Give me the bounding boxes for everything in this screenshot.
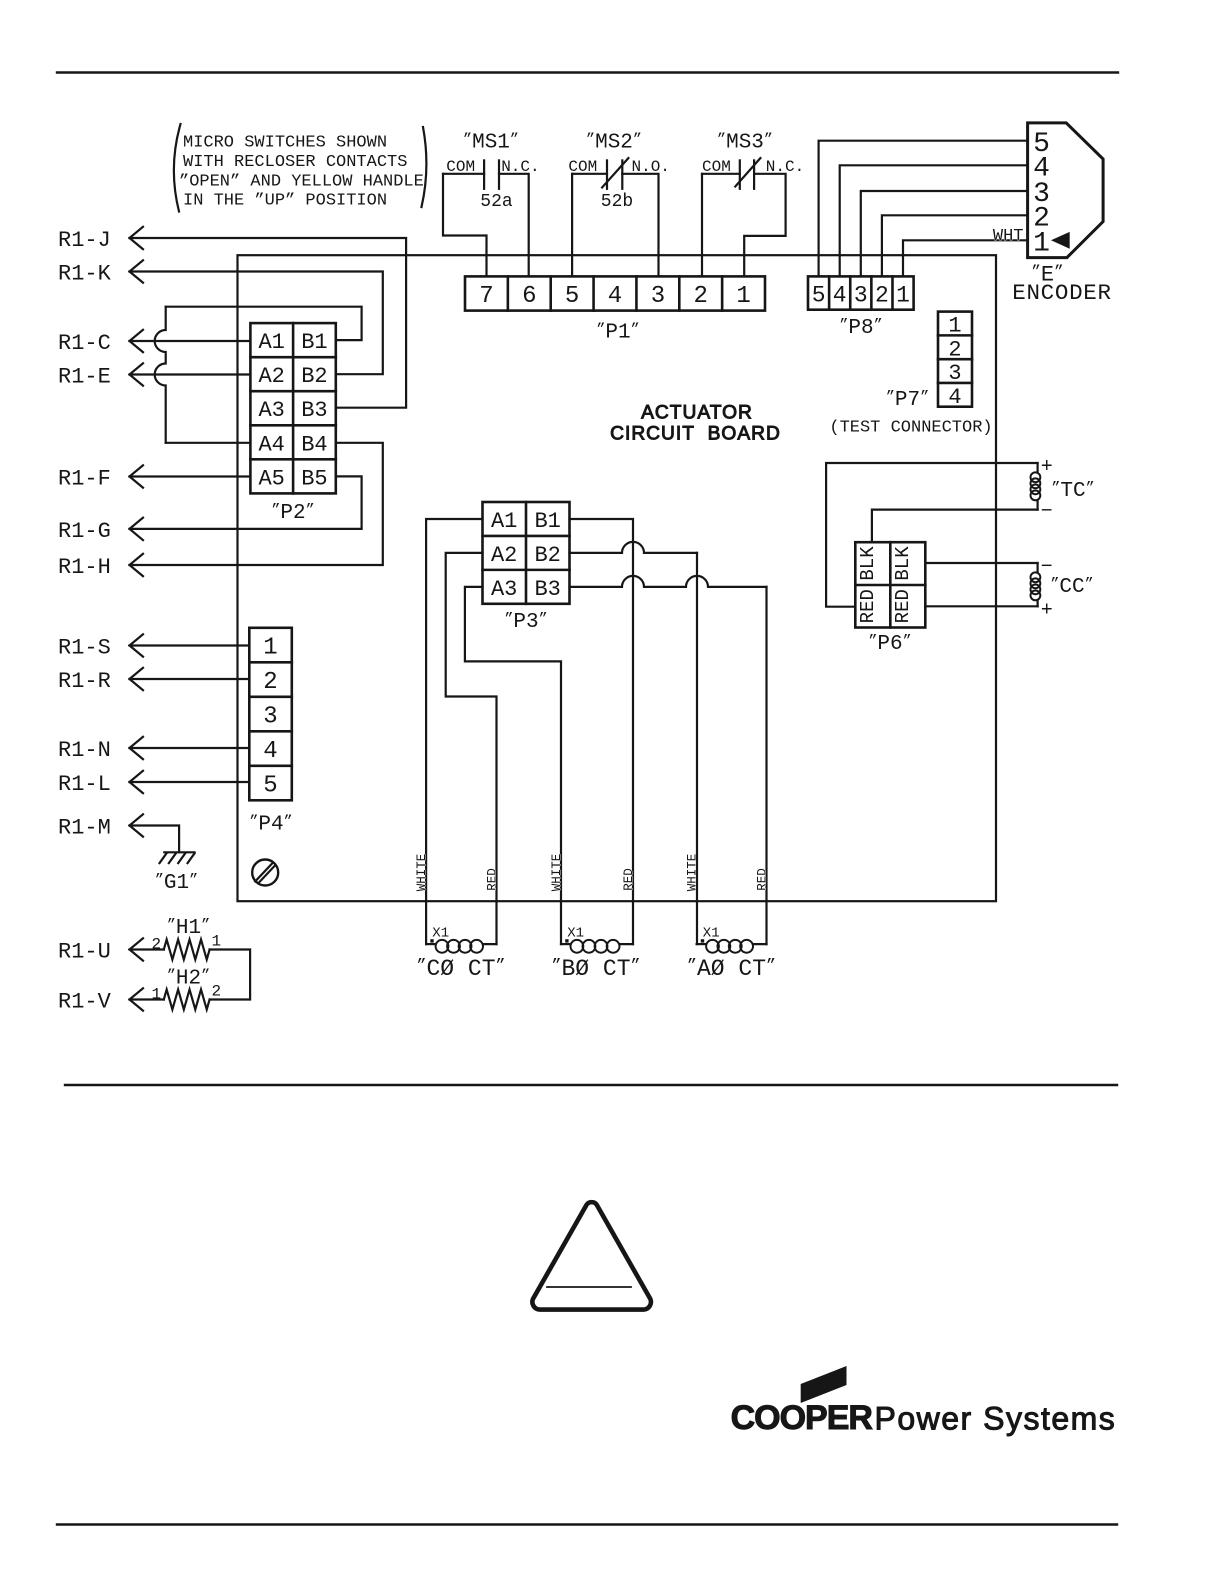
wire P3 pin A1 to C-phase CT white lead xyxy=(426,519,482,944)
svg-text:WHT: WHT xyxy=(993,227,1024,246)
node R1-U arrowhead xyxy=(130,938,144,960)
svg-text:A3: A3 xyxy=(258,398,284,423)
wire R1-L to P4 pin 5 xyxy=(130,781,250,783)
svg-text:ACTUATOR: ACTUATOR xyxy=(641,403,753,424)
svg-text:A2: A2 xyxy=(491,543,517,568)
wire MS1 N.C. to P1 pin 6 xyxy=(499,174,529,277)
svg-text:2: 2 xyxy=(693,283,707,310)
top horizontal rule xyxy=(57,71,1118,73)
wire R1-C to P2 pin A1 xyxy=(130,340,251,342)
connector P2 xyxy=(250,323,335,493)
svg-text:R1-J: R1-J xyxy=(58,228,111,253)
svg-text:Power Systems: Power Systems xyxy=(875,1400,1117,1436)
svg-text:WHITE: WHITE xyxy=(415,854,429,892)
ground G1 symbol xyxy=(160,852,195,863)
resistor H2 xyxy=(164,990,210,1010)
current transformer CØ CT coil xyxy=(426,940,496,953)
node R1-L arrowhead xyxy=(130,771,144,793)
wire P2 pin B1 loop to P2 pin A4 (hops over R1-C and R1-E) xyxy=(155,307,362,443)
svg-text:1: 1 xyxy=(212,933,222,951)
wire MS3 N.C. to P1 pin 1 xyxy=(744,174,785,277)
svg-text:”H1”: ”H1” xyxy=(167,916,210,940)
wire CC minus to P6 right BLK pin xyxy=(925,562,1037,564)
svg-text:X1: X1 xyxy=(567,926,584,942)
node R1-J arrowhead xyxy=(130,227,144,249)
svg-text:B5: B5 xyxy=(301,466,327,491)
AØ CT polarity dot X1 xyxy=(701,939,704,942)
node R1-E arrowhead xyxy=(130,363,144,385)
board mounting screw xyxy=(252,860,278,886)
svg-text:”CØ CT”: ”CØ CT” xyxy=(417,956,506,982)
svg-text:R1-L: R1-L xyxy=(58,772,111,797)
svg-text:4: 4 xyxy=(833,282,847,308)
svg-text:IN THE ”UP” POSITION: IN THE ”UP” POSITION xyxy=(183,192,387,211)
wire encoder pin 4 to P8 pin 4 xyxy=(840,165,1028,276)
wire P2 pin B5 to R1-G xyxy=(130,476,362,529)
svg-text:3: 3 xyxy=(651,283,665,310)
svg-text:1: 1 xyxy=(948,314,961,339)
wire P3 pin A3 to B-phase CT white lead xyxy=(465,587,561,944)
svg-text:B4: B4 xyxy=(301,432,327,457)
current transformer BØ CT coil xyxy=(561,940,633,953)
svg-text:”P1”: ”P1” xyxy=(596,320,639,344)
svg-text:R1-U: R1-U xyxy=(58,940,111,965)
svg-text:R1-V: R1-V xyxy=(58,990,112,1015)
wire resistor H2 pin1 to R1-V xyxy=(130,998,164,1000)
svg-text:1: 1 xyxy=(896,282,910,308)
actuator circuit board outline xyxy=(238,255,997,901)
svg-text:WITH RECLOSER CONTACTS: WITH RECLOSER CONTACTS xyxy=(183,153,407,172)
svg-text:”OPEN” AND YELLOW HANDLE: ”OPEN” AND YELLOW HANDLE xyxy=(179,172,424,191)
svg-text:A5: A5 xyxy=(258,466,284,491)
svg-text:”P8”: ”P8” xyxy=(839,316,882,340)
svg-text:”P4”: ”P4” xyxy=(249,812,292,836)
connector P6 xyxy=(855,542,925,627)
svg-text:R1-S: R1-S xyxy=(58,636,111,661)
svg-text:A4: A4 xyxy=(258,432,284,457)
wire encoder pin 1 to P8 pin 1 xyxy=(903,240,1028,276)
svg-text:”CC”: ”CC” xyxy=(1050,575,1093,599)
svg-text:CIRCUIT BOARD: CIRCUIT BOARD xyxy=(610,424,781,445)
svg-text:A1: A1 xyxy=(491,509,517,534)
svg-text:”P2”: ”P2” xyxy=(271,501,314,525)
node R1-C arrowhead xyxy=(130,330,144,352)
wire encoder pin 5 to P8 pin 5 xyxy=(819,141,1028,277)
svg-text:WHITE: WHITE xyxy=(686,854,700,892)
bottom horizontal rule xyxy=(57,1523,1117,1525)
svg-text:B1: B1 xyxy=(301,330,327,355)
svg-text:MICRO SWITCHES SHOWN: MICRO SWITCHES SHOWN xyxy=(183,134,387,153)
wire MS1 COM to P1 pin 7 xyxy=(443,174,487,277)
svg-text:3: 3 xyxy=(854,282,868,308)
wire MS2 N.O. to P1 pin 3 xyxy=(622,174,658,277)
svg-text:RED: RED xyxy=(486,868,500,891)
svg-text:R1-N: R1-N xyxy=(58,738,111,763)
board title ACTUATOR CIRCUIT BOARD xyxy=(610,403,781,445)
svg-text:1: 1 xyxy=(736,283,750,310)
svg-text:4: 4 xyxy=(608,283,622,310)
svg-text:5: 5 xyxy=(812,282,826,308)
node R1-S arrowhead xyxy=(130,634,144,656)
svg-text:R1-G: R1-G xyxy=(58,519,111,544)
svg-text:+: + xyxy=(1041,599,1053,622)
svg-text:BLK: BLK xyxy=(857,546,879,581)
svg-text:”G1”: ”G1” xyxy=(155,871,198,895)
wire encoder pin 2 to P8 pin 2 xyxy=(882,215,1028,276)
svg-text:X1: X1 xyxy=(432,926,449,942)
node R1-V arrowhead xyxy=(130,988,144,1010)
svg-text:4: 4 xyxy=(948,385,961,410)
wire R1-R to P4 pin 2 xyxy=(130,678,250,680)
svg-text:B1: B1 xyxy=(534,509,560,534)
encoder E outline xyxy=(1028,123,1104,258)
note left parenthesis xyxy=(174,124,181,212)
svg-text:R1-H: R1-H xyxy=(58,555,111,580)
svg-text:RED: RED xyxy=(857,589,879,623)
svg-text:4: 4 xyxy=(263,738,277,765)
svg-text:”MS2”: ”MS2” xyxy=(586,130,642,154)
svg-text:R1-R: R1-R xyxy=(58,669,111,694)
svg-text:B2: B2 xyxy=(534,543,560,568)
svg-text:BLK: BLK xyxy=(892,546,914,581)
svg-text:”AØ CT”: ”AØ CT” xyxy=(687,956,776,982)
wire P3 pin A2 to C-phase CT red lead xyxy=(446,553,497,944)
connector P1 xyxy=(465,276,765,310)
connector P7 (test connector) xyxy=(938,312,972,410)
svg-text:2: 2 xyxy=(948,337,961,362)
svg-text:”P3”: ”P3” xyxy=(504,610,547,634)
svg-text:2: 2 xyxy=(875,282,889,308)
wire R1-J to P2 pin B3 xyxy=(130,238,407,408)
wire R1-E to P2 pin A2 xyxy=(130,373,251,375)
svg-text:2: 2 xyxy=(263,669,277,696)
svg-text:RED: RED xyxy=(892,589,914,623)
wire R1-N to P4 pin 4 xyxy=(130,747,250,749)
micro switch MS1 contact 52a xyxy=(446,158,539,189)
note text: micro switches shown with recloser contacts open xyxy=(179,134,424,211)
svg-text:(TEST CONNECTOR): (TEST CONNECTOR) xyxy=(829,419,992,438)
svg-text:−: − xyxy=(1041,500,1053,523)
wire MS2 COM to P1 pin 5 xyxy=(572,174,607,277)
svg-text:2: 2 xyxy=(212,983,222,1001)
middle horizontal rule xyxy=(65,1084,1117,1086)
CØ CT polarity dot X1 xyxy=(430,939,433,942)
micro switch MS3 contact xyxy=(702,158,804,189)
svg-text:B3: B3 xyxy=(534,577,560,602)
svg-text:B3: B3 xyxy=(301,398,327,423)
wire TC plus to P6 left RED pin xyxy=(826,463,1038,607)
connector P8 xyxy=(808,276,914,309)
svg-text:”H2”: ”H2” xyxy=(167,966,210,990)
svg-text:5: 5 xyxy=(565,283,579,310)
Cooper Power Systems logo flag xyxy=(801,1366,847,1403)
node R1-K arrowhead xyxy=(130,260,144,282)
wire TC minus to P6 left BLK pin xyxy=(872,510,1038,543)
BØ CT polarity dot X1 xyxy=(565,939,568,942)
svg-text:1: 1 xyxy=(152,986,162,1004)
svg-text:1: 1 xyxy=(263,635,277,662)
svg-text:R1-F: R1-F xyxy=(58,467,111,492)
wire P3 pin B3 to A-phase CT red lead (hops over B1 and B2 wires) xyxy=(570,576,767,944)
svg-text:X1: X1 xyxy=(703,926,720,942)
node R1-R arrowhead xyxy=(130,668,144,690)
connector P3 xyxy=(483,502,570,604)
wire P3 pin B2 to A-phase CT white lead (hop over B1 wire) xyxy=(570,542,698,944)
svg-text:52b: 52b xyxy=(601,192,633,212)
svg-text:”MS3”: ”MS3” xyxy=(717,130,773,154)
node R1-F arrowhead xyxy=(130,465,144,487)
micro switch MS2 contact 52b xyxy=(568,158,670,189)
wire R1-K to P2 pin B2 xyxy=(130,272,383,375)
svg-text:”MS1”: ”MS1” xyxy=(463,130,519,154)
svg-text:RED: RED xyxy=(756,868,770,891)
svg-text:3: 3 xyxy=(948,361,961,386)
wire R1-F to P2 pin A5 xyxy=(130,475,251,477)
svg-text:R1-E: R1-E xyxy=(58,365,111,390)
svg-text:R1-M: R1-M xyxy=(58,816,111,841)
svg-text:2: 2 xyxy=(152,936,162,954)
wire CC plus to P6 right RED pin xyxy=(925,605,1037,607)
connector P4 xyxy=(249,628,291,801)
wire P2 pin B4 to R1-H xyxy=(130,443,383,565)
svg-text:5: 5 xyxy=(263,773,277,800)
svg-text:A1: A1 xyxy=(258,330,284,355)
svg-text:”BØ CT”: ”BØ CT” xyxy=(552,956,641,982)
svg-text:6: 6 xyxy=(522,283,536,310)
svg-text:WHITE: WHITE xyxy=(550,854,564,892)
svg-text:B2: B2 xyxy=(301,364,327,389)
node R1-G arrowhead xyxy=(130,518,144,540)
note right parenthesis xyxy=(422,127,427,207)
current transformer AØ CT coil xyxy=(697,940,767,953)
wire P3 pin B1 to B-phase CT red lead xyxy=(570,519,634,944)
svg-text:”P6”: ”P6” xyxy=(868,632,911,656)
resistor H1 xyxy=(164,940,210,960)
svg-text:”TC”: ”TC” xyxy=(1051,479,1094,503)
svg-text:7: 7 xyxy=(479,283,493,310)
warning triangle xyxy=(532,1202,651,1309)
wire R1-S to P4 pin 1 xyxy=(130,644,250,646)
close coil CC xyxy=(1031,563,1041,606)
trip coil TC xyxy=(1031,463,1041,510)
svg-text:52a: 52a xyxy=(480,192,513,212)
svg-text:A2: A2 xyxy=(258,364,284,389)
svg-text:R1-C: R1-C xyxy=(58,331,111,356)
warning triangle inner line xyxy=(547,1286,631,1288)
svg-text:COOPER: COOPER xyxy=(731,1399,873,1437)
svg-text:RED: RED xyxy=(622,868,636,891)
encoder index triangle marker xyxy=(1051,232,1070,249)
wire R1-U to resistor H1 xyxy=(130,948,164,950)
wire encoder pin 3 to P8 pin 3 xyxy=(861,191,1028,276)
node R1-N arrowhead xyxy=(130,737,144,759)
svg-text:”P7”: ”P7” xyxy=(886,388,929,412)
node R1-M arrowhead xyxy=(130,814,144,836)
svg-text:R1-K: R1-K xyxy=(58,262,112,287)
wire resistor H1 pin1 to resistor H2 pin2 xyxy=(210,950,251,1000)
svg-text:ENCODER: ENCODER xyxy=(1012,280,1111,306)
wire R1-M to ground G1 xyxy=(130,826,180,853)
svg-text:+: + xyxy=(1041,456,1053,479)
svg-text:3: 3 xyxy=(263,704,277,731)
svg-text:A3: A3 xyxy=(491,577,517,602)
wire MS3 COM to P1 pin 2 xyxy=(702,174,740,277)
node R1-H arrowhead xyxy=(130,554,144,576)
svg-text:1: 1 xyxy=(1033,229,1050,260)
